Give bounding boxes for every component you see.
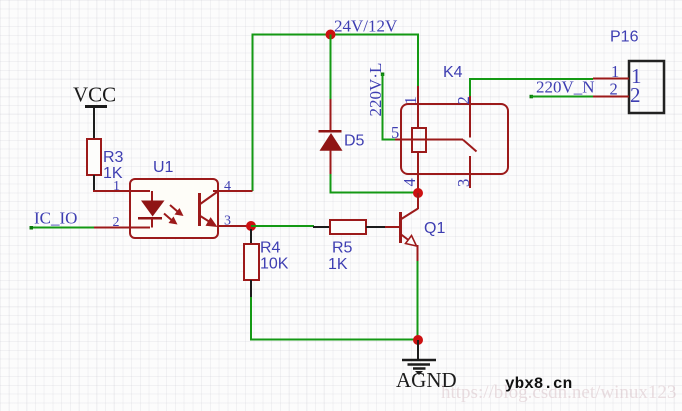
- K4 pin 3: [469, 156, 471, 188]
- svg-text:1: 1: [401, 96, 420, 104]
- D5 designator: [344, 133, 365, 150]
- R4 value 10K: [260, 256, 289, 273]
- U1 pin 4: [213, 190, 253, 192]
- U1 light arrows: [164, 205, 184, 225]
- svg-text:Q1: Q1: [424, 220, 445, 237]
- K4 coil: [395, 128, 463, 152]
- diode D5: [319, 99, 343, 175]
- svg-text:3: 3: [454, 179, 473, 187]
- wire 24V rail horizontal: [253, 34, 419, 36]
- svg-text:K4: K4: [443, 64, 463, 81]
- net label 220V·L: [366, 63, 385, 117]
- svg-text:R4: R4: [260, 240, 281, 257]
- U1 pin 1: [93, 190, 150, 192]
- transistor Q1: [385, 193, 418, 262]
- svg-text:2: 2: [113, 215, 120, 230]
- relay K4 body: [401, 104, 508, 174]
- R5 value 1K: [328, 256, 348, 273]
- svg-text:220V_N: 220V_N: [536, 78, 595, 97]
- U1 internal LED: [138, 191, 165, 228]
- Q1 designator: [424, 220, 445, 237]
- wire IC_IO: [30, 226, 95, 230]
- wire R4 down to ground rail: [250, 297, 418, 340]
- svg-text:3: 3: [224, 214, 231, 229]
- K4 switch blade: [463, 140, 477, 152]
- K4 pin 3 number: [454, 179, 473, 187]
- svg-text:D5: D5: [344, 133, 365, 150]
- K4 pin 2 number: [454, 96, 473, 104]
- P16 pin 1: [593, 78, 629, 80]
- U1 internal phototransistor: [200, 192, 218, 227]
- R3 designator: [103, 149, 124, 166]
- op-amp U1 optocoupler body: [130, 179, 218, 238]
- svg-text:2: 2: [454, 96, 473, 104]
- wire 220V_N to P16 pin2: [530, 95, 594, 99]
- wire 24V rail down to U1 pin4: [252, 34, 254, 192]
- svg-text:IC_IO: IC_IO: [34, 209, 77, 228]
- K4 pin 1: [417, 86, 419, 128]
- svg-text:P16: P16: [610, 29, 639, 46]
- watermark: [441, 375, 676, 403]
- wire 24V rail down to relay K4 pin1: [417, 34, 419, 88]
- wire U1.3 to R5: [251, 225, 314, 227]
- wire Q1 emitter to ground rail: [417, 261, 419, 340]
- svg-text:4: 4: [400, 178, 419, 186]
- P16 inner pin 1 label: [631, 64, 642, 88]
- svg-text:4: 4: [224, 179, 231, 194]
- K4 pin 4 number: [400, 178, 419, 186]
- P16 inner pin 2 label: [630, 83, 641, 107]
- svg-text:2: 2: [610, 80, 618, 99]
- svg-text:5: 5: [391, 123, 399, 142]
- svg-text:10K: 10K: [260, 256, 289, 273]
- K4 pin 2: [469, 95, 471, 138]
- svg-text:1K: 1K: [328, 256, 348, 273]
- P16 pin 2: [593, 96, 629, 98]
- junction on 24V rail: [326, 30, 336, 40]
- K4 designator: [443, 64, 463, 81]
- U1 pin 1 number: [113, 179, 120, 194]
- net label 220V_N: [536, 78, 595, 97]
- resistor R4: [244, 229, 259, 298]
- net label 24V/12V: [334, 17, 398, 36]
- U1 pin 3: [218, 225, 250, 227]
- R5 designator: [332, 240, 353, 257]
- svg-text:24V/12V: 24V/12V: [334, 17, 398, 36]
- power symbol VCC: [73, 83, 116, 140]
- ground AGND: [396, 340, 457, 392]
- wire relay pin2 to P16 pin1: [469, 79, 593, 96]
- U1 pin 3 number: [224, 214, 231, 229]
- svg-text:VCC: VCC: [73, 83, 116, 107]
- R3 value 1K: [103, 165, 123, 182]
- svg-text:1: 1: [113, 179, 120, 194]
- net label IC_IO: [34, 209, 77, 228]
- R4 designator: [260, 240, 281, 257]
- wire 24V rail down to D5: [330, 35, 332, 101]
- svg-text:ybx8.cn: ybx8.cn: [505, 375, 572, 393]
- svg-text:1: 1: [611, 62, 619, 81]
- svg-text:U1: U1: [153, 159, 174, 176]
- U1 pin 4 number: [224, 179, 231, 194]
- P16 pin 1 number: [611, 62, 619, 81]
- svg-text:R3: R3: [103, 149, 124, 166]
- U1 designator: [153, 159, 174, 176]
- junction collector node: [413, 188, 423, 198]
- junction ground node: [413, 335, 423, 345]
- K4 pin 4: [417, 152, 419, 193]
- wire D5 to collector node: [330, 174, 419, 193]
- resistor R5: [313, 220, 385, 234]
- resistor R3: [87, 139, 101, 192]
- wire 220V·L to relay pin5: [381, 73, 396, 140]
- U1 pin 2: [94, 227, 150, 229]
- P16 pin 2 number: [610, 80, 618, 99]
- junction at U1 pin3 / R4: [246, 221, 256, 231]
- connector P16 body: [629, 61, 664, 113]
- svg-text:2: 2: [630, 83, 641, 107]
- svg-text:R5: R5: [332, 240, 353, 257]
- U1 pin 2 number: [113, 215, 120, 230]
- K4 pin 5 number: [391, 123, 399, 142]
- P16 designator: [610, 29, 639, 46]
- K4 pin 1 number: [401, 96, 420, 104]
